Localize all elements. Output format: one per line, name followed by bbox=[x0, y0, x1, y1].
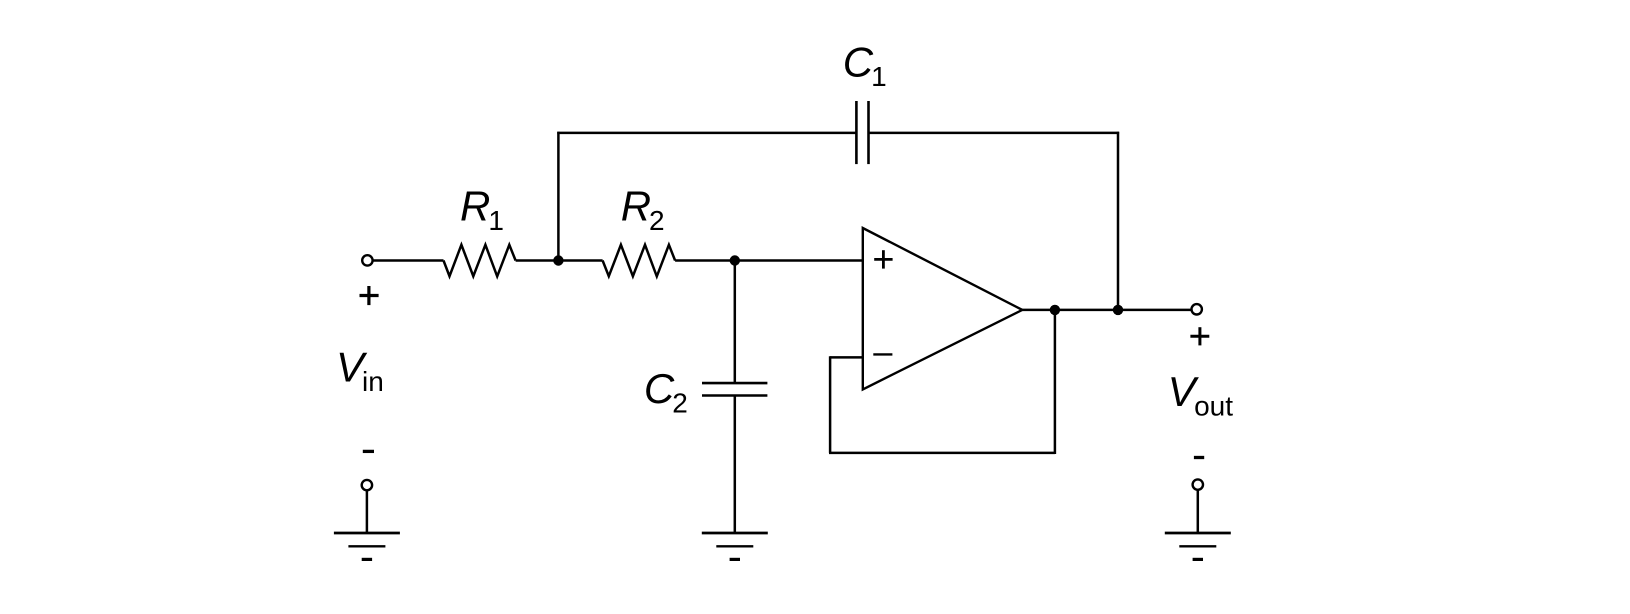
node B junction dot bbox=[730, 255, 740, 265]
wire C1 to right corner bbox=[869, 132, 1120, 135]
node C junction dot bbox=[1050, 305, 1060, 315]
capacitor C2 bbox=[702, 383, 767, 395]
label - (output) bbox=[1194, 456, 1204, 459]
wire R1 to R2 bbox=[516, 259, 603, 262]
ground (output) bbox=[1165, 533, 1231, 559]
wire node B down to C2 bbox=[734, 261, 737, 384]
wire feedback stub from - input bbox=[830, 356, 863, 359]
output terminal circle bbox=[1192, 304, 1202, 314]
ground (input) bbox=[334, 533, 400, 559]
node D junction dot bbox=[1113, 305, 1123, 315]
input ground terminal circle bbox=[362, 480, 372, 490]
wire input terminal to ground bbox=[366, 491, 369, 533]
op-amp - input marker bbox=[873, 353, 892, 355]
wire top left to C1 bbox=[557, 132, 856, 135]
wire op-amp output bbox=[1022, 309, 1191, 312]
capacitor C1 bbox=[856, 101, 868, 164]
label - (input) bbox=[363, 450, 374, 453]
op-amp + input marker bbox=[874, 250, 892, 268]
wire feedback bottom bbox=[829, 452, 1055, 455]
wire C2 to ground bbox=[734, 396, 737, 534]
node A junction dot bbox=[553, 255, 563, 265]
wire right corner down to output node bbox=[1117, 132, 1120, 310]
wire output terminal to ground bbox=[1197, 490, 1200, 533]
label + (output) bbox=[1190, 327, 1209, 345]
wire input to R1 bbox=[373, 259, 443, 262]
ground (C2) bbox=[702, 533, 768, 559]
input terminal circle bbox=[362, 255, 372, 265]
wire node A up bbox=[557, 132, 560, 262]
op-amp U1 triangle bbox=[863, 228, 1023, 389]
wire R2 to op-amp + input bbox=[675, 259, 863, 262]
resistor R1 bbox=[444, 245, 516, 277]
resistor R2 bbox=[603, 245, 676, 277]
wire feedback up to output bbox=[1054, 310, 1057, 454]
wire feedback left vertical bbox=[829, 356, 832, 453]
output ground terminal circle bbox=[1193, 479, 1203, 489]
label + (input) bbox=[360, 286, 379, 305]
